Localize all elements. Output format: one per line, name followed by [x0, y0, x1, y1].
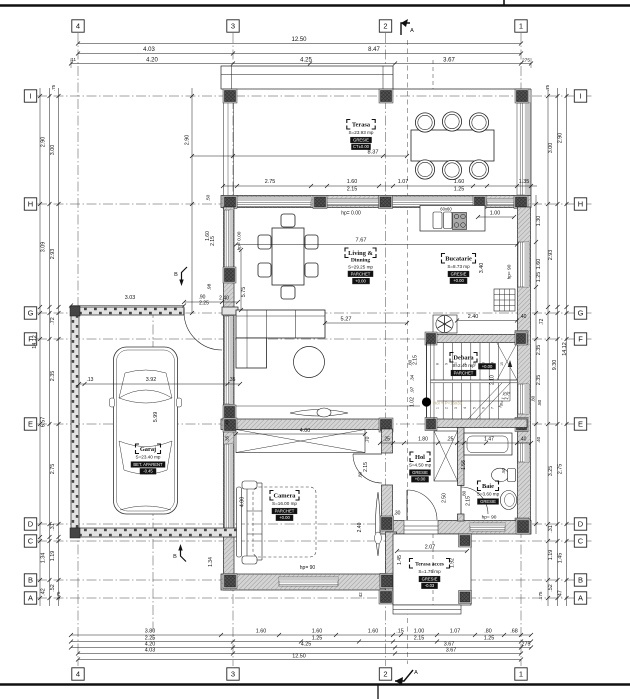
column west mid: [223, 267, 236, 283]
svg-text:1.19: 1.19: [548, 550, 554, 561]
svg-text:.72: .72: [539, 318, 545, 325]
svg-text:.40: .40: [536, 436, 541, 443]
section line A-A: [407, 40, 409, 664]
svg-text:S=16.00 mp: S=16.00 mp: [272, 501, 297, 506]
svg-text:3.00: 3.00: [548, 143, 554, 154]
window: [225, 444, 234, 530]
bottom dimension chain row 4: [78, 653, 521, 655]
svg-text:B: B: [173, 554, 177, 560]
svg-text:1.47: 1.47: [484, 437, 494, 443]
roof overhang dashed: [432, 60, 434, 89]
grid bubble H: [574, 198, 586, 210]
top dimension chain 4.03 / 8.47: [78, 53, 521, 55]
svg-text:.98: .98: [207, 283, 213, 290]
svg-text:2: 2: [383, 22, 387, 31]
svg-text:2.35: 2.35: [536, 375, 542, 386]
svg-text:D: D: [578, 520, 584, 529]
grid axis F horizontal: [37, 338, 593, 340]
stair up arrow: [437, 366, 510, 401]
terrace chair: [415, 113, 434, 132]
svg-text:Garaj: Garaj: [140, 446, 156, 453]
svg-text:Dinning: Dinning: [351, 258, 370, 264]
svg-text:1.07: 1.07: [398, 179, 409, 185]
svg-text:8.37: 8.37: [368, 150, 379, 156]
dashed line terasa: [432, 534, 434, 605]
terasa post NE: [459, 534, 472, 547]
window: [237, 197, 311, 207]
svg-text:1.80: 1.80: [418, 437, 428, 443]
svg-text:B: B: [174, 272, 178, 278]
grid axis E horizontal: [37, 423, 593, 425]
svg-text:2.35: 2.35: [50, 371, 56, 382]
grid bubble C: [24, 535, 36, 547]
svg-text:E: E: [28, 420, 33, 429]
svg-text:1.00: 1.00: [414, 629, 425, 635]
svg-text:S=8.73 mp: S=8.73 mp: [447, 264, 470, 269]
column E/1: [515, 418, 528, 432]
grid axis 3 vertical: [232, 33, 234, 666]
svg-text:1: 1: [436, 407, 440, 409]
window: [225, 316, 234, 404]
top dimension chain 4.20 4.25 3.67 .275: [71, 63, 531, 65]
terrace slab edge: [393, 88, 531, 90]
svg-text:3.25: 3.25: [548, 466, 554, 477]
svg-text:3.92: 3.92: [146, 377, 157, 383]
svg-text:.80: .80: [537, 399, 542, 406]
svg-text:1.92: 1.92: [450, 558, 456, 568]
terasa acces post SW: [379, 590, 393, 604]
svg-text:PARCHET: PARCHET: [351, 271, 371, 276]
dim 7.67: [236, 244, 517, 246]
svg-text:275: 275: [522, 58, 530, 64]
column south/3: [223, 574, 237, 589]
svg-text:Terasa acces: Terasa acces: [415, 562, 444, 568]
grid axis D horizontal: [37, 523, 593, 525]
svg-text:Debara: Debara: [453, 355, 474, 362]
title block tick top: [503, 0, 505, 6]
grid bubble G: [574, 307, 586, 319]
dim kitchen 2.40: [457, 320, 517, 322]
svg-text:Baie: Baie: [482, 483, 494, 490]
svg-text:Camera: Camera: [273, 493, 296, 500]
kitchen sink: [433, 212, 442, 229]
bathtub: [464, 433, 512, 455]
stair landing diagonals: [497, 343, 517, 380]
grid bubble 1: [515, 20, 527, 32]
column H mid-east: [473, 196, 486, 209]
svg-text:.42: .42: [41, 588, 47, 596]
svg-text:4.03: 4.03: [145, 648, 156, 654]
svg-text:4.00: 4.00: [300, 428, 311, 434]
svg-text:1: 1: [519, 670, 523, 679]
terasa post SE: [459, 591, 472, 604]
svg-text:2.40: 2.40: [219, 296, 229, 302]
svg-text:2.25: 2.25: [199, 301, 209, 307]
grid bubble E: [574, 418, 586, 430]
svg-text:A: A: [410, 28, 414, 34]
room label Living &: [345, 248, 349, 252]
svg-text:.40: .40: [520, 314, 527, 320]
grid axis 4 vertical: [77, 33, 79, 666]
svg-text:A: A: [578, 594, 583, 603]
svg-text:1.45: 1.45: [397, 555, 403, 565]
room label Hol: [410, 452, 414, 456]
title block tick bottom: [377, 685, 379, 699]
stair treads lower flight: [433, 383, 435, 419]
svg-text:.80: .80: [484, 629, 492, 635]
svg-text:.75: .75: [51, 84, 56, 91]
dim 8.37: [192, 155, 407, 157]
svg-text:3.03: 3.03: [125, 295, 136, 301]
svg-text:.97: .97: [410, 386, 415, 393]
window: [487, 199, 514, 206]
camera door: [353, 453, 382, 455]
svg-text:2.50: 2.50: [442, 493, 448, 503]
wc: [492, 468, 509, 482]
pillow: [242, 556, 257, 564]
svg-text:6: 6: [482, 407, 486, 409]
room label Debara: [450, 353, 454, 357]
svg-text:I: I: [29, 92, 31, 101]
svg-text:GRESIE: GRESIE: [451, 271, 467, 276]
radiator lens living: [290, 410, 348, 417]
svg-text:hp= 0.00: hp= 0.00: [237, 231, 243, 250]
svg-text:5.99: 5.99: [153, 412, 159, 423]
svg-text:.52: .52: [50, 584, 56, 592]
svg-text:D: D: [28, 520, 34, 529]
grid axis H horizontal: [37, 203, 593, 205]
section marker B top: [182, 267, 188, 283]
terrace table: [411, 130, 494, 161]
svg-text:GRESIE: GRESIE: [353, 137, 369, 142]
svg-text:BET. APARENT: BET. APARENT: [133, 462, 163, 467]
dim 5.27: [325, 322, 407, 324]
svg-text:1.34: 1.34: [208, 557, 214, 567]
svg-text:4.20: 4.20: [146, 58, 158, 64]
svg-text:hp= 90: hp= 90: [300, 565, 316, 571]
svg-text:.80: .80: [358, 471, 363, 478]
svg-text:2: 2: [445, 407, 449, 409]
grid bubble B: [574, 574, 586, 586]
svg-text:.50: .50: [501, 467, 506, 473]
entry door opening: [404, 521, 438, 535]
kitchen counter: [420, 206, 485, 232]
svg-text:6.57: 6.57: [41, 417, 47, 428]
terasa acces platform: [393, 534, 471, 605]
svg-text:Living &: Living &: [348, 250, 373, 257]
grid axis C horizontal: [37, 540, 593, 542]
pillow: [242, 481, 257, 489]
radiator lens camera: [376, 492, 381, 556]
terrace chair: [469, 160, 488, 179]
svg-text:2.15: 2.15: [466, 496, 472, 506]
sofa: [236, 310, 325, 338]
dim kitchen 1.00: [478, 216, 514, 218]
svg-text:1.45: 1.45: [558, 553, 564, 564]
svg-text:PARCHET: PARCHET: [275, 508, 295, 513]
svg-text:12.50: 12.50: [292, 654, 306, 660]
svg-text:S=4.50 mp: S=4.50 mp: [409, 463, 432, 468]
bottom dimension chain row 3: [71, 647, 531, 649]
svg-text:.75: .75: [545, 84, 550, 91]
grid bubble D: [24, 518, 36, 530]
lavoar: [500, 491, 516, 510]
ventilation fan: [433, 315, 457, 333]
svg-text:B: B: [28, 576, 33, 585]
svg-text:A: A: [414, 670, 418, 676]
top dimension chain overall 12.50: [78, 43, 521, 45]
svg-text:S=29.25 mp: S=29.25 mp: [348, 265, 373, 270]
svg-text:.68: .68: [510, 629, 518, 635]
baie door: [460, 485, 462, 514]
svg-text:1.56: 1.56: [461, 460, 467, 470]
svg-text:9: 9: [445, 363, 449, 365]
svg-text:7: 7: [491, 407, 495, 409]
svg-text:G: G: [28, 309, 34, 318]
svg-text:1.60: 1.60: [256, 629, 267, 635]
svg-text:60x60: 60x60: [440, 207, 452, 212]
svg-text:.40: .40: [520, 437, 527, 443]
svg-text:1.25: 1.25: [484, 636, 495, 642]
svg-text:14.12: 14.12: [562, 342, 568, 356]
svg-text:1.60: 1.60: [347, 179, 358, 185]
grid bubble E: [24, 418, 36, 430]
north wall H: [221, 196, 531, 208]
carport north wall: [71, 307, 184, 315]
room label Camera: [270, 491, 274, 495]
east wall: [518, 207, 531, 534]
svg-text:GRESIE: GRESIE: [422, 576, 438, 581]
column F/1: [515, 331, 528, 345]
room label Garaj: [136, 444, 140, 448]
svg-text:H: H: [28, 200, 33, 209]
stair break line: [468, 383, 502, 419]
svg-text:3.67: 3.67: [443, 58, 455, 64]
svg-text:.25: .25: [447, 437, 454, 443]
svg-text:2.15: 2.15: [347, 187, 358, 193]
svg-text:.175: .175: [538, 591, 543, 600]
svg-text:.31: .31: [548, 525, 554, 533]
svg-text:3: 3: [454, 407, 458, 409]
svg-text:275: 275: [522, 642, 531, 648]
grid bubble 2: [379, 20, 391, 32]
svg-text:1.60: 1.60: [454, 179, 465, 185]
svg-text:.15: .15: [396, 629, 404, 635]
garage centre axis: [152, 308, 154, 640]
dim garage door: [184, 301, 238, 303]
svg-text:CT±0.00: CT±0.00: [353, 144, 370, 149]
sheet bottom border: [0, 683, 630, 685]
svg-text:9.30: 9.30: [552, 360, 558, 371]
svg-text:2.15: 2.15: [210, 236, 216, 246]
svg-text:S=3.60 mp: S=3.60 mp: [477, 492, 500, 497]
pantry shelves: [494, 289, 515, 311]
hol north wall: [426, 419, 527, 428]
dim row under H wall: [223, 185, 537, 187]
column 2/E: [379, 418, 393, 432]
svg-text:2.90: 2.90: [185, 135, 191, 146]
dining table living: [272, 228, 304, 285]
svg-text:.25: .25: [383, 437, 390, 443]
svg-text:hp= 90: hp= 90: [507, 264, 513, 279]
window: [470, 523, 505, 531]
column I/2: [379, 89, 393, 103]
svg-text:S=2.40 mp: S=2.40 mp: [452, 363, 475, 368]
camera east wall upper: [382, 429, 393, 453]
bottom dimension chain row 5 overall: [78, 659, 521, 661]
stair landing edge: [431, 379, 518, 381]
svg-text:3.40: 3.40: [479, 263, 485, 274]
svg-text:B: B: [578, 576, 583, 585]
grid bubble 4: [72, 668, 84, 680]
camera east wall lower: [382, 485, 393, 518]
column H/2: [379, 196, 393, 209]
column D/1: [515, 518, 529, 532]
grid bubble D: [574, 518, 586, 530]
svg-text:.175: .175: [56, 591, 61, 600]
svg-text:+0.00: +0.00: [279, 515, 290, 520]
svg-text:S=23.93 mp: S=23.93 mp: [349, 130, 374, 135]
kitchen hob: [453, 213, 467, 230]
svg-text:1.30: 1.30: [536, 216, 542, 227]
svg-text:7.67: 7.67: [356, 238, 367, 244]
grid bubble G: [24, 307, 36, 319]
grid axis I horizontal: [37, 95, 593, 97]
window: [518, 384, 529, 414]
svg-text:C: C: [578, 537, 584, 546]
svg-text:1.25: 1.25: [536, 272, 542, 283]
svg-text:2.93: 2.93: [548, 250, 554, 261]
terasa acces steps: [393, 605, 461, 614]
garage door arc: [184, 312, 222, 350]
svg-text:2.15: 2.15: [414, 636, 425, 642]
svg-text:3.67: 3.67: [446, 648, 457, 654]
svg-text:.52: .52: [548, 584, 554, 592]
svg-text:-0.45: -0.45: [143, 469, 153, 474]
svg-text:1.25: 1.25: [454, 187, 465, 193]
column B/2a: [380, 574, 394, 589]
svg-text:4: 4: [76, 22, 80, 31]
svg-text:1.60: 1.60: [536, 259, 542, 270]
carport corner posts: [70, 306, 80, 316]
grid bubble H: [24, 198, 36, 210]
svg-text:.70: .70: [365, 436, 371, 443]
svg-text:4.25: 4.25: [300, 58, 312, 64]
coffee table: [294, 347, 325, 378]
window: [392, 197, 474, 207]
window: [518, 242, 529, 287]
svg-text:1: 1: [519, 22, 523, 31]
svg-text:5: 5: [472, 407, 476, 409]
rug dashed: [253, 487, 316, 557]
terrace chair: [469, 113, 488, 132]
grid bubble F: [24, 333, 36, 345]
svg-text:.31: .31: [50, 523, 56, 531]
column D/2: [380, 516, 394, 531]
svg-text:S=23.40 mp: S=23.40 mp: [136, 455, 161, 460]
camera south wall: [221, 574, 397, 590]
svg-text:+0.00: +0.00: [453, 278, 464, 283]
svg-text:-0.03: -0.03: [425, 583, 435, 588]
column south/2: [380, 574, 394, 589]
svg-text:Terasa: Terasa: [352, 122, 371, 129]
grid bubble 1: [515, 668, 527, 680]
section marker A bottom: [395, 670, 413, 681]
svg-text:4.00: 4.00: [240, 497, 246, 508]
svg-text:12.50: 12.50: [291, 37, 307, 43]
svg-text:4.25: 4.25: [301, 642, 312, 648]
svg-text:4: 4: [76, 670, 80, 679]
column I/1: [515, 89, 529, 103]
svg-text:2.90: 2.90: [558, 133, 564, 144]
bottom dimension chain row 1: [71, 634, 531, 636]
svg-text:.13: .13: [87, 377, 94, 383]
wardrobe with X: [236, 430, 365, 453]
svg-text:2.07: 2.07: [425, 545, 436, 551]
grid bubble B: [24, 574, 36, 586]
window: [225, 210, 234, 268]
bed: [246, 483, 248, 560]
terrace planter edge: [221, 66, 393, 89]
svg-text:1.25: 1.25: [312, 636, 323, 642]
svg-text:14.12: 14.12: [32, 335, 38, 349]
svg-text:A: A: [28, 594, 33, 603]
svg-text:2: 2: [383, 670, 387, 679]
grid bubble C: [574, 535, 586, 547]
entry door arc: [406, 490, 408, 520]
room label Baie: [478, 481, 482, 485]
terrace west edge: [223, 96, 225, 196]
dim garage horizontal: [79, 383, 240, 385]
svg-text:1.07: 1.07: [450, 629, 461, 635]
svg-text:Hol: Hol: [415, 454, 425, 461]
svg-text:.80: .80: [531, 395, 536, 402]
window: [517, 103, 531, 195]
svg-text:1.35: 1.35: [519, 179, 530, 185]
grid axis A horizontal: [37, 597, 593, 599]
column 3/E: [223, 418, 237, 432]
hol closet: [434, 431, 458, 481]
svg-text:2.90: 2.90: [41, 137, 47, 148]
svg-text:GRESIE: GRESIE: [412, 470, 428, 475]
room label Bucatarie: [442, 254, 446, 258]
svg-text:8: 8: [436, 363, 440, 365]
dim hol row: [380, 442, 531, 444]
svg-text:+0.00: +0.00: [415, 477, 426, 482]
west wall axis 3: [224, 207, 235, 590]
dim 5.75 vertical: [240, 250, 242, 310]
svg-text:2.40: 2.40: [357, 522, 363, 532]
svg-text:+0.00: +0.00: [355, 279, 366, 284]
svg-text:S=1.75 mp: S=1.75 mp: [418, 569, 441, 574]
grid axis 1 vertical: [520, 33, 522, 666]
section marker A top: [401, 23, 410, 35]
window: [518, 443, 529, 462]
svg-text:2.75: 2.75: [265, 179, 276, 185]
section marker B bottom: [181, 547, 187, 562]
svg-text:.40: .40: [225, 419, 230, 426]
grid axis 2 vertical: [385, 33, 387, 666]
room label Terasa acces: [410, 559, 414, 563]
svg-text:2.93: 2.93: [50, 249, 56, 260]
svg-text:3: 3: [231, 22, 235, 31]
svg-text:3: 3: [231, 670, 235, 679]
grid bubble 3: [227, 668, 239, 680]
svg-text:1.19: 1.19: [50, 551, 56, 562]
svg-text:.72: .72: [50, 317, 56, 325]
svg-text:.35: .35: [229, 377, 236, 383]
terrace chair: [442, 112, 461, 131]
